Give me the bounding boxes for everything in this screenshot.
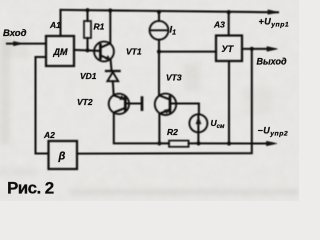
wire: VT2 base to stub bar — [125, 102, 142, 104]
wire: A3 bottom pin down — [228, 61, 230, 144]
wire: input lead — [7, 43, 46, 45]
node: junction I1 on bus — [157, 10, 161, 14]
wire: A1 box top pin — [59, 10, 61, 36]
transistor VT1 (NPN) — [94, 42, 114, 62]
node: junction bottom — [227, 141, 231, 145]
voltage source Usm — [189, 114, 207, 132]
transistor VT2 (PNP) — [109, 94, 129, 114]
node: output arrow — [267, 47, 278, 52]
node: junction R1 bottom — [85, 48, 89, 52]
wire: to A3 input — [159, 51, 216, 53]
svg-text:Вход: Вход — [3, 28, 27, 39]
svg-text:β: β — [58, 151, 66, 163]
wire: VD1 to VT2 — [112, 81, 115, 95]
scan smudges — [0, 35, 299, 195]
block A3 (UT) — [216, 36, 242, 62]
node: junction VT3 emitter — [157, 141, 161, 145]
node: +Uupr1 arrow — [268, 10, 279, 14]
svg-text:VT1: VT1 — [126, 47, 142, 57]
wire: VT3 emitter down to R2 rail — [158, 114, 160, 144]
wire: VT1 emitter down to VD1 — [111, 60, 112, 71]
wire: VT3 collector up to I1 — [158, 40, 160, 96]
node: junction output tee — [250, 47, 254, 51]
svg-text:Выход: Выход — [257, 57, 287, 67]
svg-text:VT3: VT3 — [166, 73, 182, 83]
svg-text:ДМ: ДМ — [53, 47, 68, 57]
svg-text:А2: А2 — [43, 130, 55, 140]
svg-text:VD1: VD1 — [80, 71, 97, 81]
wire: top supply bus — [61, 10, 279, 12]
wire: A3 output — [242, 48, 268, 50]
diode VD1 — [106, 70, 120, 72]
svg-text:А3: А3 — [213, 20, 225, 30]
wire: output feedback vertical and bottom bus — [77, 49, 252, 154]
block A1 (DM demodulator) — [46, 36, 74, 66]
node: base stub bar — [141, 98, 144, 110]
node: junction A3 top pin on bus — [227, 10, 231, 14]
resistor R2 — [169, 141, 189, 147]
resistor R1 — [86, 10, 88, 21]
transistor VT3 (PNP) — [155, 94, 176, 115]
node: junction Usm bottom — [196, 141, 200, 145]
svg-text:А1: А1 — [49, 20, 61, 30]
node: junction R1 top — [85, 8, 89, 12]
node: -Uupr2 arrow — [267, 141, 278, 146]
svg-text:УТ: УТ — [222, 44, 235, 54]
wire: A3 top pin — [228, 12, 230, 35]
node: input arrow — [14, 42, 24, 46]
wire: VT3 base to Usm — [170, 104, 199, 115]
svg-text:VT2: VT2 — [77, 97, 93, 107]
wire: VT1 collector up — [109, 11, 111, 44]
svg-text:Рис. 2: Рис. 2 — [7, 179, 54, 198]
block A2 (V) — [49, 141, 78, 169]
node: junction VT1 collector on bus — [108, 8, 112, 12]
wire: lower rail with R2 to -Uupr2 — [159, 142, 169, 144]
current source I1 — [158, 12, 160, 21]
svg-text:R2: R2 — [167, 127, 178, 137]
svg-text:R1: R1 — [94, 22, 105, 32]
paper background — [0, 0, 299, 201]
wire: VT2 collector down and right along lower rail — [114, 113, 160, 144]
wire: feedback from A1 to A2 — [36, 57, 49, 154]
wire: A1 output to VT1 base — [74, 50, 100, 51]
node: junction A3 input tee — [157, 50, 161, 54]
